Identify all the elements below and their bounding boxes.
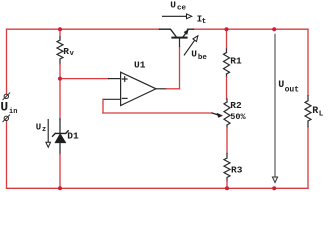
terminal mark upper — [3, 93, 10, 100]
svg-text:R: R — [312, 106, 318, 117]
wire output vertical to transistor base — [179, 47, 181, 89]
potentiometer R2 — [224, 99, 230, 128]
svg-text:R2: R2 — [230, 100, 242, 111]
svg-text:R1: R1 — [230, 56, 242, 67]
node dot A — [58, 77, 62, 81]
label Uin — [0, 100, 17, 116]
svg-text:R3: R3 — [231, 165, 243, 176]
arrow Ube — [184, 36, 198, 55]
label Uce — [170, 0, 186, 12]
node dot top Uout — [272, 27, 276, 31]
wire right edge lower — [307, 127, 309, 189]
node dot bottom R3 — [225, 186, 229, 190]
diode D1 (zener) — [53, 119, 69, 154]
svg-text:U: U — [191, 48, 197, 59]
label Rv — [63, 46, 74, 58]
wire feedback vertical — [102, 99, 104, 113]
resistor branch: wire top to R1 — [226, 29, 228, 49]
wire left edge upper — [6, 29, 8, 94]
op-amp U1 — [121, 72, 156, 105]
transistor Q1 — [160, 29, 194, 38]
svg-text:D1: D1 — [67, 130, 79, 141]
resistor Rv — [57, 37, 63, 65]
svg-text:U: U — [36, 122, 41, 132]
wire R1 to R2 — [226, 77, 228, 99]
node dot top Rv — [58, 27, 62, 31]
resistor R3 — [224, 154, 230, 182]
svg-text:U: U — [0, 100, 8, 115]
svg-text:U: U — [170, 0, 176, 11]
svg-text:z: z — [42, 126, 46, 134]
node dot top R1 — [225, 27, 229, 31]
node dot bottom D1 — [58, 186, 62, 190]
svg-text:R: R — [63, 46, 69, 57]
arrow Uce — [163, 14, 192, 19]
wire right edge upper — [307, 29, 309, 95]
svg-text:U1: U1 — [134, 60, 146, 71]
terminal mark lower — [3, 115, 10, 122]
svg-text:U: U — [278, 80, 284, 91]
wire R3 to bottom — [226, 181, 228, 188]
node dot bottom Uout — [272, 186, 276, 190]
wiper arrow of R2 — [212, 113, 223, 118]
wire node A to D1 — [59, 79, 61, 119]
wire feedback horizontal to wiper — [103, 112, 212, 114]
wire minus input stub — [103, 98, 121, 100]
label Ube — [191, 48, 207, 61]
arrow Uout — [272, 35, 277, 183]
wire node A to op-amp plus input — [60, 78, 109, 80]
resistor R1 — [224, 49, 230, 77]
svg-text:L: L — [319, 110, 324, 118]
label Uz — [36, 122, 46, 133]
label Uout — [278, 80, 299, 95]
arrow Uz — [46, 120, 51, 148]
wire Rv branch top — [59, 29, 61, 37]
wire bottom horizontal — [7, 187, 309, 189]
wire op-amp output — [156, 88, 166, 90]
label It — [197, 13, 207, 26]
wire D1 to bottom — [59, 154, 61, 188]
wire R2 to R3 — [226, 128, 228, 154]
wire top left horizontal — [7, 28, 160, 30]
wire top right horizontal — [194, 28, 309, 30]
svg-text:be: be — [198, 54, 208, 62]
wire Rv to node A — [59, 65, 61, 79]
resistor RL — [305, 96, 311, 127]
svg-text:ce: ce — [177, 4, 187, 12]
svg-text:50%: 50% — [230, 112, 246, 122]
svg-text:t: t — [202, 18, 207, 26]
svg-text:out: out — [285, 86, 300, 95]
label RL — [312, 106, 324, 119]
svg-text:in: in — [9, 108, 17, 116]
wire left edge lower — [6, 121, 8, 189]
